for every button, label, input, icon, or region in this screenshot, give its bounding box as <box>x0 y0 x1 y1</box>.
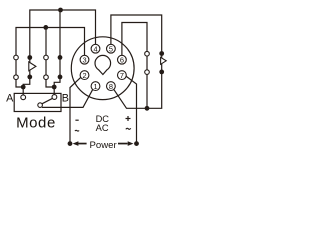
contact K3 top terminal (NO circle) <box>145 51 150 56</box>
power junction dot <box>145 106 150 111</box>
contact K3 moving-contact triangle <box>161 57 167 64</box>
socket keyway center hole <box>95 55 111 74</box>
svg-text:5: 5 <box>109 44 113 53</box>
svg-text:4: 4 <box>93 44 97 53</box>
contact K1 left column <box>15 60 17 75</box>
contact K3 common top dot <box>159 51 164 56</box>
contact K1 right column <box>29 57 31 77</box>
pin 1 <box>91 82 100 91</box>
power arrow left <box>73 141 87 146</box>
wire pin 1 to Mode box <box>42 89 93 107</box>
Mode switch lever <box>42 98 52 103</box>
contact K1 junction dot <box>21 85 26 90</box>
contact K3 right column <box>161 54 163 72</box>
wire pin 7 to power terminal right <box>126 76 137 144</box>
contact K3 common bottom dot <box>159 70 164 75</box>
svg-text:8: 8 <box>109 82 113 91</box>
contact K2 bottom terminal (NO circle) <box>44 75 49 80</box>
socket outline <box>71 37 134 100</box>
contact K1 moving-contact triangle <box>29 62 36 71</box>
contact K2 left column <box>45 60 47 75</box>
pin 2 <box>80 71 89 80</box>
label tilde (AC left) <box>75 129 79 132</box>
svg-text:7: 7 <box>120 71 124 80</box>
Mode selector box <box>14 93 61 111</box>
contact K2 top terminal (NO circle) <box>44 55 49 60</box>
svg-text:Power: Power <box>89 140 117 151</box>
contact K2 right column <box>59 57 61 77</box>
contact K3 left column <box>146 56 148 70</box>
Mode switch pole circle <box>38 103 43 108</box>
Mode terminal B circle <box>52 95 57 100</box>
wire pin 8 to power junction <box>114 89 147 108</box>
label tilde (AC right) <box>126 128 131 129</box>
contact K1 tap to Mode terminal A <box>22 87 24 95</box>
wire net B: pin 3 to contact NO terminals <box>16 28 85 56</box>
wire drop to contact K2 common <box>59 10 61 57</box>
wire net D: pin 6 to right contact left terminal <box>122 23 147 56</box>
pin 5 <box>107 44 116 53</box>
svg-text:6: 6 <box>120 55 124 64</box>
svg-text:B: B <box>62 92 69 104</box>
junction dot on net A <box>58 8 63 13</box>
svg-text:A: A <box>6 92 14 104</box>
wire net C: pin 5 to right contact common <box>111 15 162 53</box>
power terminal right dot <box>134 141 139 146</box>
svg-text:2: 2 <box>82 71 86 80</box>
pin 4 <box>91 44 100 53</box>
label plus (DC right) <box>126 116 131 121</box>
svg-text:Mode: Mode <box>16 115 56 132</box>
power terminal left dot <box>68 141 73 146</box>
svg-text:AC: AC <box>96 123 109 133</box>
wire net A: pins 4 to contact commons <box>30 10 96 57</box>
contact K1 common bottom dot <box>27 75 32 80</box>
contact K1 bottom terminal (NO circle) <box>14 75 19 80</box>
contact K2 common bottom dot <box>58 75 63 80</box>
svg-text:1: 1 <box>93 82 97 91</box>
wire pin 2 to power terminal left <box>70 77 81 144</box>
pin 6 <box>118 55 127 64</box>
wire drop to contact K2 left <box>45 28 47 56</box>
Mode terminal A circle <box>21 95 26 100</box>
contact K2 common top dot <box>58 55 63 60</box>
label minus (DC left) <box>75 119 78 121</box>
junction dot on net B <box>43 25 48 30</box>
pin 8 <box>107 82 116 91</box>
contact K2 junction dot <box>52 85 57 90</box>
pin 7 <box>118 71 127 80</box>
svg-text:3: 3 <box>82 55 86 64</box>
contact K1 top terminal (NO circle) <box>14 55 19 60</box>
contact K1 common top dot <box>27 55 32 60</box>
pin 3 <box>80 55 89 64</box>
power arrow right <box>118 141 134 146</box>
contact K3 bottom terminal (NO circle) <box>145 70 150 75</box>
contact K2 tap to Mode terminal B <box>53 87 55 95</box>
